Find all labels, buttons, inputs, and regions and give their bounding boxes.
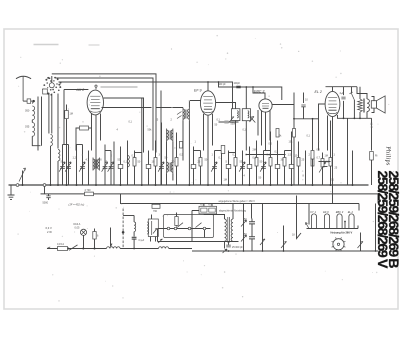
junction bus junction 17 bbox=[352, 184, 354, 186]
svg-text:0,5: 0,5 bbox=[275, 151, 279, 154]
svg-text:4 700: 4 700 bbox=[85, 189, 92, 192]
terminal bus terminal b bbox=[43, 184, 46, 187]
wire IFT1 pri down bbox=[182, 121, 184, 161]
junction bus junction 12 bbox=[249, 184, 251, 186]
svg-text:0,15 A: 0,15 A bbox=[57, 243, 64, 246]
junction ift4 top dot bbox=[245, 86, 247, 88]
wire gang down c bbox=[57, 94, 59, 149]
IF transformer OSC coupling coil bbox=[92, 158, 94, 171]
svg-text:0,2: 0,2 bbox=[233, 154, 237, 157]
trimmer capacitor C t6 bbox=[102, 162, 108, 172]
coil L4 osc coil bbox=[58, 150, 60, 161]
IFT3 box bbox=[232, 109, 240, 121]
mains line right bbox=[169, 248, 192, 250]
junction coup dot bbox=[293, 118, 295, 120]
wire el2 sg bbox=[337, 118, 339, 120]
supply bus bbox=[121, 194, 360, 204]
svg-text:5000: 5000 bbox=[231, 123, 237, 126]
svg-text:0,7: 0,7 bbox=[317, 157, 321, 160]
resistor R24 bbox=[255, 158, 258, 167]
wire drop col34 bbox=[330, 121, 332, 186]
junction bus junction 2 bbox=[57, 184, 59, 186]
pot arrow b bbox=[241, 235, 247, 242]
svg-text:EL 2: EL 2 bbox=[315, 90, 322, 94]
svg-text:0,1: 0,1 bbox=[219, 157, 223, 160]
ground bus bbox=[9, 184, 369, 186]
junction sw dot c bbox=[94, 248, 96, 250]
output transformer bbox=[347, 93, 349, 95]
svg-text:6,3 V: 6,3 V bbox=[46, 226, 52, 230]
wire tie 7 bbox=[285, 150, 292, 152]
IFT4 box bbox=[242, 109, 250, 121]
coil mains choke 2 bbox=[159, 247, 169, 249]
wire right v bbox=[375, 204, 377, 252]
wire drop col16 bbox=[193, 147, 195, 186]
junction bus junction 7 bbox=[141, 184, 143, 186]
junction dd3 bbox=[283, 250, 285, 252]
svg-text:CY 1: CY 1 bbox=[310, 210, 316, 214]
wire spk frame bbox=[372, 97, 375, 113]
wire EBC3 down bbox=[265, 112, 267, 150]
junction bus junction 9 bbox=[188, 184, 190, 186]
wire vol pot bbox=[323, 166, 328, 168]
AK2 top cap bbox=[95, 87, 97, 89]
contact 1 bbox=[174, 227, 177, 230]
svg-text:1,2: 1,2 bbox=[73, 157, 77, 160]
tube socket bottom view bbox=[333, 239, 344, 250]
wire drop col15 bbox=[176, 133, 178, 186]
lamp feed a bbox=[111, 228, 113, 247]
wire drop col28 bbox=[284, 151, 286, 186]
svg-text:0,1: 0,1 bbox=[124, 161, 128, 164]
junction out dot bbox=[343, 117, 345, 119]
wire out bus low bbox=[338, 117, 372, 119]
wire EL2 grid bbox=[319, 104, 326, 151]
svg-text:0,3: 0,3 bbox=[253, 157, 257, 160]
resistor R13 bbox=[154, 158, 157, 167]
resistor R30 bbox=[297, 158, 300, 167]
svg-text:0,1μF: 0,1μF bbox=[139, 240, 145, 242]
osc arrow bbox=[153, 229, 157, 234]
wire tie 4 bbox=[194, 150, 201, 152]
wire drop col24 bbox=[256, 141, 258, 186]
junction bus junction 13 bbox=[270, 184, 272, 186]
wire grid top AK2 bbox=[51, 76, 53, 83]
svg-text:1M: 1M bbox=[325, 155, 328, 158]
wire coupling bbox=[294, 93, 313, 119]
junction bus junction 3 bbox=[66, 184, 68, 186]
wire drop col20 bbox=[228, 151, 230, 186]
coil osc coil a bbox=[147, 222, 149, 234]
range switch bar bbox=[158, 228, 211, 230]
wire EL2 top bbox=[332, 87, 334, 92]
wire rtone2 bbox=[366, 94, 368, 119]
wire filter left2 bbox=[41, 97, 43, 146]
svg-text:100 pF: 100 pF bbox=[219, 84, 227, 86]
svg-text:0,05: 0,05 bbox=[75, 227, 80, 230]
svg-text:EF 9: EF 9 bbox=[194, 89, 202, 93]
wire el2 drop b bbox=[352, 151, 354, 186]
wire bottom cap bbox=[228, 242, 230, 245]
wire EBC3 pin2 bbox=[261, 111, 263, 146]
pot arrow a bbox=[241, 220, 247, 227]
svg-text:EL 2: EL 2 bbox=[348, 210, 354, 214]
gang trimmer bbox=[43, 89, 48, 94]
wire hum coil top bbox=[133, 216, 135, 223]
junction bus junction 16 bbox=[330, 184, 332, 186]
tube AK 2 bbox=[76, 88, 104, 115]
wire drop col4 bbox=[82, 145, 84, 186]
wire AK2 pin2 bbox=[91, 114, 93, 151]
resistor R grid EL2 bbox=[311, 151, 314, 160]
junction bus junction 1 bbox=[50, 184, 52, 186]
contact 3 bbox=[203, 227, 206, 230]
resistor R 4700 bbox=[85, 192, 94, 196]
wire EF9 pin2 bbox=[203, 114, 205, 151]
fuse 2 bbox=[209, 208, 215, 212]
wire drop col33 bbox=[322, 153, 324, 186]
junction heater dot bbox=[344, 221, 346, 223]
coil L3 osc coil bbox=[51, 135, 53, 146]
junction bus junction 4 bbox=[76, 184, 78, 186]
wire box bottom bbox=[158, 241, 214, 243]
junction out dot3 bbox=[359, 117, 361, 119]
wire el2 drop a bbox=[347, 118, 349, 185]
wire drop col30 bbox=[298, 142, 300, 186]
mains line left bbox=[47, 248, 107, 250]
svg-text:258/259/268/269 V: 258/259/268/269 V bbox=[374, 171, 390, 270]
bottom arrow 2 bbox=[158, 239, 163, 243]
resistor R17 bbox=[199, 158, 202, 167]
wire top bus 3 bbox=[59, 82, 233, 111]
svg-text:0,1: 0,1 bbox=[132, 155, 136, 158]
junction bus junction 6 bbox=[120, 184, 122, 186]
wire drop col7 bbox=[110, 151, 112, 186]
avc bus bbox=[41, 194, 379, 204]
wire lamp down bbox=[83, 235, 85, 248]
wire coup2 bbox=[303, 93, 305, 119]
junction EF9 top dot bbox=[207, 81, 209, 83]
wire det bbox=[219, 121, 239, 123]
wire drop col12 bbox=[148, 151, 150, 186]
osc coil box bbox=[148, 219, 158, 237]
wire out cap bbox=[343, 87, 345, 119]
svg-text:2 W: 2 W bbox=[47, 230, 52, 234]
IFT4 trimmer arrow bbox=[250, 117, 255, 123]
wire tie 0 bbox=[63, 144, 69, 146]
capacitor C9 bbox=[118, 165, 123, 169]
osc inner line bbox=[151, 221, 153, 235]
wire rgrid el2 bbox=[312, 119, 314, 185]
wire top bus 1 bbox=[52, 74, 156, 153]
scan speckle bbox=[254, 37, 257, 40]
resistor R 277b bbox=[276, 129, 279, 138]
trimmer capacitor C t18 bbox=[211, 162, 217, 172]
bottom line bbox=[192, 250, 379, 252]
coil IFT3 coil bbox=[237, 111, 238, 118]
terminal bus terminal a bbox=[16, 184, 19, 187]
mains switch bbox=[69, 245, 78, 250]
svg-text:1M: 1M bbox=[70, 113, 73, 116]
wire top bus 4 (EF9-EBC3) bbox=[219, 82, 282, 100]
wire t1 d bbox=[232, 240, 234, 242]
wire EBC3 top stub bbox=[253, 87, 265, 99]
wire tie 5 bbox=[229, 152, 236, 154]
switch d bbox=[281, 242, 287, 249]
wire IFT1 sec down bbox=[188, 121, 190, 186]
capacitor C29 bbox=[289, 165, 294, 169]
wire pot ab bbox=[243, 204, 245, 252]
trimmer capacitor C t14 bbox=[158, 162, 164, 172]
resistor R shunt bbox=[93, 232, 96, 240]
resistor R15 bbox=[175, 158, 178, 167]
resistor R selector bbox=[175, 217, 178, 226]
junction bus junction 0 bbox=[22, 184, 24, 186]
wire tie 2 bbox=[105, 150, 111, 152]
wire grid loop bbox=[64, 90, 88, 145]
coil IFT4 coil bbox=[248, 111, 249, 118]
antenna bbox=[16, 76, 31, 79]
trimmer capacitor C t22 bbox=[239, 162, 245, 172]
wire hum coil bot bbox=[133, 232, 135, 237]
heater bus bbox=[307, 226, 359, 229]
capacitor C coupling bbox=[301, 105, 305, 107]
wire drop col3 bbox=[76, 145, 78, 186]
wire slant c bbox=[262, 204, 264, 252]
wire link mid a bbox=[246, 154, 286, 156]
resistor R 296 bbox=[293, 129, 296, 138]
svg-text:AK 2: AK 2 bbox=[76, 88, 85, 92]
wire IFT1 top link bbox=[156, 101, 201, 108]
junction dd1 bbox=[243, 250, 245, 252]
junction sw dot b bbox=[82, 248, 84, 250]
wire elco bbox=[251, 219, 253, 252]
wire drop col25 bbox=[263, 151, 265, 186]
switch tone bbox=[350, 92, 355, 100]
wire drop col22 bbox=[242, 151, 244, 186]
tube EL 2 bbox=[315, 90, 340, 117]
svg-text:EF 9: EF 9 bbox=[323, 210, 329, 214]
EBC 3 tube bbox=[254, 90, 272, 113]
wire screen2 bbox=[76, 128, 80, 151]
coil mains choke 1 bbox=[107, 247, 121, 249]
wire drop col32 bbox=[312, 151, 314, 186]
wire t1 b bbox=[232, 204, 234, 220]
pencil smudge bbox=[34, 44, 59, 46]
mains arrow end bbox=[47, 247, 50, 249]
wire antenna to coil bbox=[32, 101, 33, 103]
svg-text:760: 760 bbox=[153, 210, 158, 213]
capacitor C12 bbox=[146, 165, 151, 169]
wire drop col14 bbox=[161, 123, 163, 186]
svg-text:Philips: Philips bbox=[385, 146, 392, 166]
wire top bus 2 bbox=[56, 78, 154, 151]
resistor P33 body bbox=[321, 159, 324, 168]
junction feed dot bbox=[133, 248, 135, 250]
wire r296 bbox=[293, 119, 295, 185]
bottom arrow bbox=[223, 249, 228, 253]
wire t1 c bbox=[224, 241, 226, 248]
wire drop col5 bbox=[88, 151, 90, 186]
ground bbox=[8, 185, 15, 199]
wire fuse feeds bbox=[204, 204, 212, 207]
wire drop col9 bbox=[120, 147, 122, 186]
wire AK2 link2 bbox=[102, 107, 152, 109]
wire top bus EL2 bbox=[326, 86, 358, 88]
wavetrap arrow bbox=[19, 168, 26, 182]
coil L2 antenna coil bbox=[32, 123, 34, 137]
wire drop col17 bbox=[200, 151, 202, 186]
wire drop col13 bbox=[155, 141, 157, 186]
wire L3 down bbox=[50, 146, 52, 185]
svg-text:1,5: 1,5 bbox=[288, 154, 292, 157]
resistor R screen AK2 bbox=[80, 126, 89, 130]
wire EF9 pin3 bbox=[212, 114, 214, 146]
svg-text:0,5: 0,5 bbox=[326, 161, 330, 164]
svg-text:2M: 2M bbox=[253, 149, 256, 152]
wire drop col21 bbox=[235, 141, 237, 186]
svg-text:4,7: 4,7 bbox=[86, 159, 90, 162]
wire tie 8 bbox=[215, 150, 222, 152]
svg-text:1147: 1147 bbox=[370, 123, 374, 129]
dial lamp bbox=[80, 229, 86, 235]
wire tie 6 bbox=[264, 150, 271, 152]
wire EF9 top stub bbox=[207, 82, 209, 91]
resistor R32 bbox=[311, 158, 314, 167]
wire tie 1 bbox=[77, 144, 83, 146]
svg-text:0,5: 0,5 bbox=[180, 154, 184, 157]
wire out bus top bbox=[357, 87, 368, 94]
electrolytic C50b bbox=[249, 237, 255, 239]
wire EL2 pin3 bbox=[337, 115, 339, 119]
resistor R ift bbox=[179, 142, 182, 149]
junction antenna junction bbox=[33, 100, 35, 102]
wire tie 3 bbox=[135, 152, 142, 154]
wire drop col19 bbox=[221, 154, 223, 186]
wire between coils bbox=[31, 120, 33, 123]
capacitor C 100pF coupling bbox=[236, 86, 240, 88]
wire drop col31 bbox=[305, 151, 307, 186]
IFT3 trimmer arrow bbox=[229, 117, 234, 123]
contact 0 bbox=[167, 227, 170, 230]
svg-text:(JF = 452 kc): (JF = 452 kc) bbox=[69, 202, 85, 206]
wire AK2 plate link bbox=[104, 98, 144, 153]
diode arrow bbox=[250, 117, 255, 123]
heater chain wiring bbox=[309, 214, 356, 229]
wire EF9 plate link bbox=[216, 103, 236, 109]
capacitor C avc bbox=[46, 196, 50, 198]
wire gang down a bbox=[48, 94, 50, 134]
wire t1 a bbox=[204, 214, 225, 219]
junction out dot2 bbox=[354, 117, 356, 119]
IFT1 trimmer arrows bbox=[177, 112, 182, 119]
wire drop col23 bbox=[249, 147, 251, 186]
wire drop col29 bbox=[291, 132, 293, 186]
wire screen bbox=[89, 127, 92, 129]
heater arrow bbox=[306, 223, 310, 229]
resistor R spk bbox=[370, 152, 374, 161]
electrolytic C50a bbox=[249, 222, 255, 224]
svg-text:100: 100 bbox=[98, 159, 103, 162]
wire EBC3 pin3 bbox=[269, 111, 271, 141]
resistor fuse 0.15A bbox=[58, 247, 68, 251]
svg-text:1M: 1M bbox=[224, 179, 227, 182]
wire contacts down bbox=[158, 229, 205, 242]
fuse 1 bbox=[201, 208, 207, 212]
wire top bus 3b bbox=[101, 86, 138, 88]
junction bottom dot bbox=[228, 250, 230, 252]
resistor R cath EF9 bbox=[221, 146, 225, 154]
wire rshunt bbox=[94, 229, 96, 249]
wire el2 link bbox=[313, 118, 319, 120]
wire drop col10 bbox=[127, 141, 129, 186]
switch blade 2 bbox=[196, 223, 202, 228]
tuning gang C1 bbox=[58, 84, 60, 86]
wire right v2 bbox=[358, 204, 360, 211]
resistor R26 bbox=[269, 158, 272, 167]
junction bus junction 8 bbox=[155, 184, 157, 186]
wire drop col6 bbox=[104, 145, 106, 186]
potentiometer P33 bbox=[319, 162, 325, 173]
junction feed b dot bbox=[122, 231, 125, 234]
wire AK2 pin3 bbox=[100, 114, 102, 141]
wire switch e bbox=[360, 233, 362, 252]
shield box bbox=[164, 215, 214, 238]
IF transformer IFT2b bbox=[166, 161, 168, 174]
wire selector bbox=[176, 213, 178, 227]
wire IFT2 down bbox=[167, 142, 173, 186]
contact 2 bbox=[188, 227, 191, 230]
coil L1 antenna coil bbox=[32, 106, 34, 120]
capacitor C out 4uF bbox=[341, 97, 345, 99]
speaker bbox=[371, 96, 385, 113]
trimmer capacitor C t4 bbox=[79, 162, 85, 172]
svg-text:EBC 3: EBC 3 bbox=[336, 210, 344, 214]
svg-text:035: 035 bbox=[25, 125, 30, 129]
wire drop col8 bbox=[113, 142, 115, 186]
wire gang down b bbox=[51, 94, 53, 134]
T1 core bbox=[228, 217, 230, 243]
slant c bbox=[260, 239, 265, 245]
capacitor C20 bbox=[226, 165, 231, 169]
wire spk2 bbox=[371, 160, 373, 185]
coil hum coil bbox=[134, 222, 136, 232]
heater tap bbox=[344, 222, 346, 229]
switch e bbox=[358, 242, 364, 249]
wire hum down bbox=[133, 240, 135, 249]
capacitor C27 bbox=[275, 165, 280, 169]
junction bus junction 10 bbox=[207, 184, 209, 186]
wire sw bbox=[352, 87, 355, 119]
trimmer capacitor C t25 bbox=[260, 162, 266, 172]
resistor R grid AK2 bbox=[65, 111, 69, 119]
wire switch d bbox=[283, 226, 285, 252]
wire supply drop2 bbox=[251, 204, 253, 219]
tube EF 9 bbox=[194, 89, 216, 116]
wire cap stub bbox=[48, 194, 50, 200]
svg-text:angegebene Werte gelten f. 260: angegebene Werte gelten f. 260 V bbox=[219, 200, 256, 203]
svg-text:Heizung für 260 V: Heizung für 260 V bbox=[331, 230, 353, 234]
wire L4 down bbox=[57, 161, 59, 185]
svg-text:25 000 pF: 25 000 pF bbox=[232, 246, 243, 249]
wire drop col1 bbox=[62, 145, 64, 186]
wire drop col11 bbox=[134, 151, 136, 186]
junction dd4 bbox=[375, 250, 377, 252]
wire spk bbox=[371, 118, 373, 150]
resistor R 760 bbox=[152, 204, 160, 208]
wire heater feed bbox=[297, 196, 302, 239]
wire avc drop bbox=[44, 187, 46, 194]
